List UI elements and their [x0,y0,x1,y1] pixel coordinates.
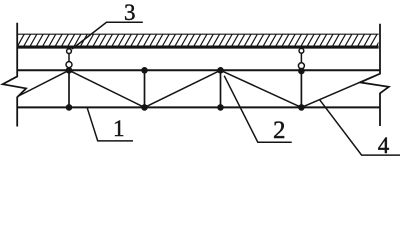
leader 4 [320,100,400,156]
node dot bottom 4 [298,104,305,111]
hanger right: rod [300,53,302,63]
slab soffit thick line [17,46,379,49]
bottom chord [17,106,380,108]
right break line [360,24,389,126]
leader 3 [72,22,143,49]
web diagonal D1 [18,70,70,96]
slab top line [17,33,379,35]
web diagonal D4 [221,70,302,107]
web vertical V4 [300,70,302,107]
node dot bottom 1 [66,104,73,111]
web diagonal D2 [69,70,145,107]
left break line [3,23,27,127]
hanger left: lower ring [66,62,72,68]
web vertical V2 [144,70,146,107]
svg-text:3: 3 [124,0,136,25]
node dot top 4 [298,68,305,75]
hanger right: upper ring [299,48,304,53]
node dot bottom 3 [217,104,224,111]
web vertical V1 [68,70,70,107]
svg-text:2: 2 [273,117,286,144]
node dot top 3 [217,67,224,74]
svg-text:4: 4 [378,133,390,158]
node dot top 2 [141,67,148,74]
svg-text:1: 1 [113,116,125,141]
hanger left: rod [68,54,70,62]
web diagonal D3 [145,70,221,107]
slab hatching [11,33,384,46]
node dot top 1 [66,67,73,74]
web vertical V3 [220,70,222,107]
hanger right: lower ring [298,63,304,69]
leader 2 [224,76,292,143]
leader 1 [87,108,133,141]
node dot bottom 2 [141,104,148,111]
top chord [17,69,380,71]
web diagonal D5 [301,76,373,107]
hanger left: upper ring [67,49,72,54]
